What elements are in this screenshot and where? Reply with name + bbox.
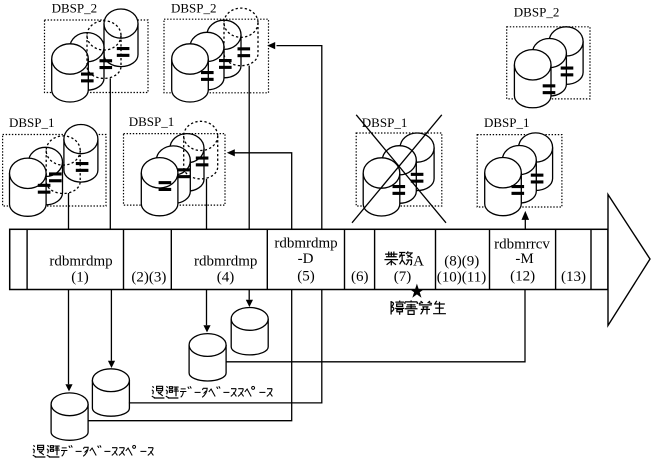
DBSP_2 #1 group: cylinder 4 [104,24,138,67]
svg-text:DBSP_1: DBSP_1 [9,115,55,130]
DBSP_1 recovered group: cylinder 2 [502,160,536,203]
backup cylinder C [189,345,226,381]
dotted box DBSP_2 #2 [164,19,269,93]
band divider 10 [590,229,592,289]
wire backup B to DBSP_2#2 [129,290,322,403]
svg-text:rdbmrdmp: rdbmrdmp [274,236,337,252]
svg-text:(1): (1) [71,269,89,285]
svg-text:rdbmrdmp: rdbmrdmp [194,253,257,269]
arrowhead into backup A [65,384,72,391]
DBSP_2 #2 group: marker bars on cylinder 1 [201,71,214,74]
DBSP_2 #1 group: dotted cylinder 3 [87,35,121,78]
backup cylinder A [51,404,88,440]
svg-text:(6): (6) [351,269,369,285]
band divider 4 [266,229,268,289]
DBSP_2 #2 group: dotted cylinder 4 [224,23,258,66]
svg-text:(10)(11): (10)(11) [437,269,486,285]
band divider 8 [489,229,491,289]
wire dump DBSP_2#2 lower [248,290,250,300]
dotted box DBSP_1 recovered [477,135,562,207]
svg-text:-D: -D [298,251,314,267]
DBSP_2 #3 group: marker bars on cylinder 2 [561,67,574,70]
backup cylinder B [92,380,129,416]
wire backup C/D to rdbmrrcv [226,290,525,362]
band divider 1 [26,229,28,289]
DBSP_2 #2 group: marker bars on cylinder 3 [238,47,251,50]
dotted box DBSP_1 failed [356,133,442,206]
wire dump DBSP_1#2 upper [206,179,208,230]
wire dump DBSP_1#1 lower [68,290,70,385]
wire dump DBSP_2#2 upper [248,66,250,230]
wire dump DBSP_1#2 lower [206,290,208,326]
svg-text:DBSP_2: DBSP_2 [171,1,217,16]
label taihi database space 1 [152,386,165,398]
svg-text:-M: -M [515,251,533,267]
svg-text:(12): (12) [510,269,535,285]
svg-text:DBSP_2: DBSP_2 [52,1,98,16]
wire dump DBSP_2#1 upper [109,78,111,229]
dotted box DBSP_1 #2 [124,134,226,206]
DBSP_1 #2 group: cylinder 1 [141,173,178,216]
failure cross line 2 [352,115,442,223]
wire dump DBSP_1#1 upper [68,193,70,229]
DBSP_1 #1 group: marker bars on cylinder 2 [49,172,62,175]
dotted box DBSP_2 #1 [45,20,149,93]
band divider 7 [435,229,437,289]
DBSP_1 #1 group: cylinder 4 [64,139,98,182]
failure star [409,284,424,298]
DBSP_1 #2 group: cylinder 2 [156,161,190,204]
DBSP_1 failed group: cylinder 1 [363,173,400,216]
timeline arrowhead [608,195,650,326]
DBSP_2 #1 group: cylinder 1 [52,59,89,102]
DBSP_1 failed group: cylinder 3 [400,148,434,191]
svg-text:(7): (7) [394,269,412,285]
arrowhead into DBSP_1#2 [227,149,235,156]
svg-text:(2)(3): (2)(3) [131,269,166,285]
DBSP_2 #1 group: cylinder 2 [70,47,104,90]
DBSP_2 #3 group: cylinder 1 [514,65,551,108]
DBSP_2 #2 group: cylinder 2 [190,47,224,90]
DBSP_1 failed group: cylinder 2 [382,160,416,203]
timeline shaft [10,229,608,289]
wire backup B to DBSP_2#2 upper [277,46,322,230]
arrowhead into recovered DBSP_1 [522,211,530,220]
arrowhead into backup D [246,300,253,307]
DBSP_1 recovered group: marker bars on cylinder 2 [531,174,544,177]
DBSP_1 #2 group: marker bars on cylinder 2 [177,168,190,171]
band divider 6 [374,229,376,289]
DBSP_1 #1 group: cylinder 1 [10,173,47,216]
DBSP_2 #1 group: marker bars on cylinder 2 [100,59,113,62]
band divider 2 [123,229,125,289]
wire backup A to DBSP_1#2 [88,290,292,421]
DBSP_1 #1 group: marker bars on cylinder 1 [38,184,51,187]
svg-text:DBSP_1: DBSP_1 [129,114,175,129]
label shougai-hassei [391,301,404,315]
svg-text:A: A [413,253,424,269]
DBSP_1 recovered group: cylinder 3 [519,148,553,191]
DBSP_2 #2 group: cylinder 1 [172,59,209,102]
DBSP_1 failed group: marker bars on cylinder 2 [411,173,424,176]
DBSP_1 #1 group: marker bars on cylinder 3 [76,162,89,165]
band divider 9 [555,229,557,289]
dotted box DBSP_2 #3 [507,27,590,99]
DBSP_2 #3 group: marker bars on cylinder 1 [543,84,556,87]
DBSP_2 #2 group: marker bars on cylinder 2 [219,59,232,62]
DBSP_2 #3 group: cylinder 2 [532,53,566,96]
wire rdbmrrcv to recovered DBSP_1 [524,220,526,230]
failure cross line 1 [356,115,446,223]
svg-text:rdbmrdmp: rdbmrdmp [49,253,112,269]
DBSP_1 recovered group: cylinder 1 [485,173,522,216]
DBSP_1 failed group: marker bars on cylinder 1 [393,185,406,188]
svg-text:(8)(9): (8)(9) [444,253,479,269]
DBSP_2 #1 group: marker bars on cylinder 3 [117,47,130,50]
wire backup A to DBSP_1#2 upper [235,153,292,230]
backup cylinder D [231,319,268,355]
DBSP_1 #2 group: marker bars on cylinder 3 [196,157,209,160]
DBSP_1 #2 group: cylinder 3 [170,148,204,191]
svg-text:(5): (5) [297,269,315,285]
svg-text:DBSP_1: DBSP_1 [362,115,408,130]
DBSP_1 recovered group: marker bars on cylinder 1 [512,185,525,188]
DBSP_1 #1 group: cylinder 2 [29,162,63,205]
svg-text:DBSP_2: DBSP_2 [514,5,560,20]
svg-text:DBSP_1: DBSP_1 [484,115,530,130]
arrowhead into DBSP_2#2 [267,42,275,49]
band divider 5 [344,229,346,289]
label taihi database space 2 [33,445,46,457]
DBSP_2 #3 group: cylinder 3 [549,41,583,84]
DBSP_2 #1 group: marker bars on cylinder 1 [81,73,94,76]
cell text gyoumu A (7) [384,251,398,265]
DBSP_1 #2 group: dotted cylinder 4 [184,136,218,179]
dotted box DBSP_1 #1 [3,135,106,207]
band divider 3 [170,229,172,289]
wire dump DBSP_2#1 lower [110,290,112,361]
arrowhead into backup B [108,361,115,368]
DBSP_1 #2 group: marker bars on cylinder 1 [159,181,172,184]
svg-text:(4): (4) [217,269,235,285]
DBSP_2 #2 group: cylinder 3 [207,35,241,78]
DBSP_1 #1 group: dotted cylinder 3 [46,151,80,194]
arrowhead into backup C [203,325,210,332]
svg-text:(13): (13) [561,269,586,285]
